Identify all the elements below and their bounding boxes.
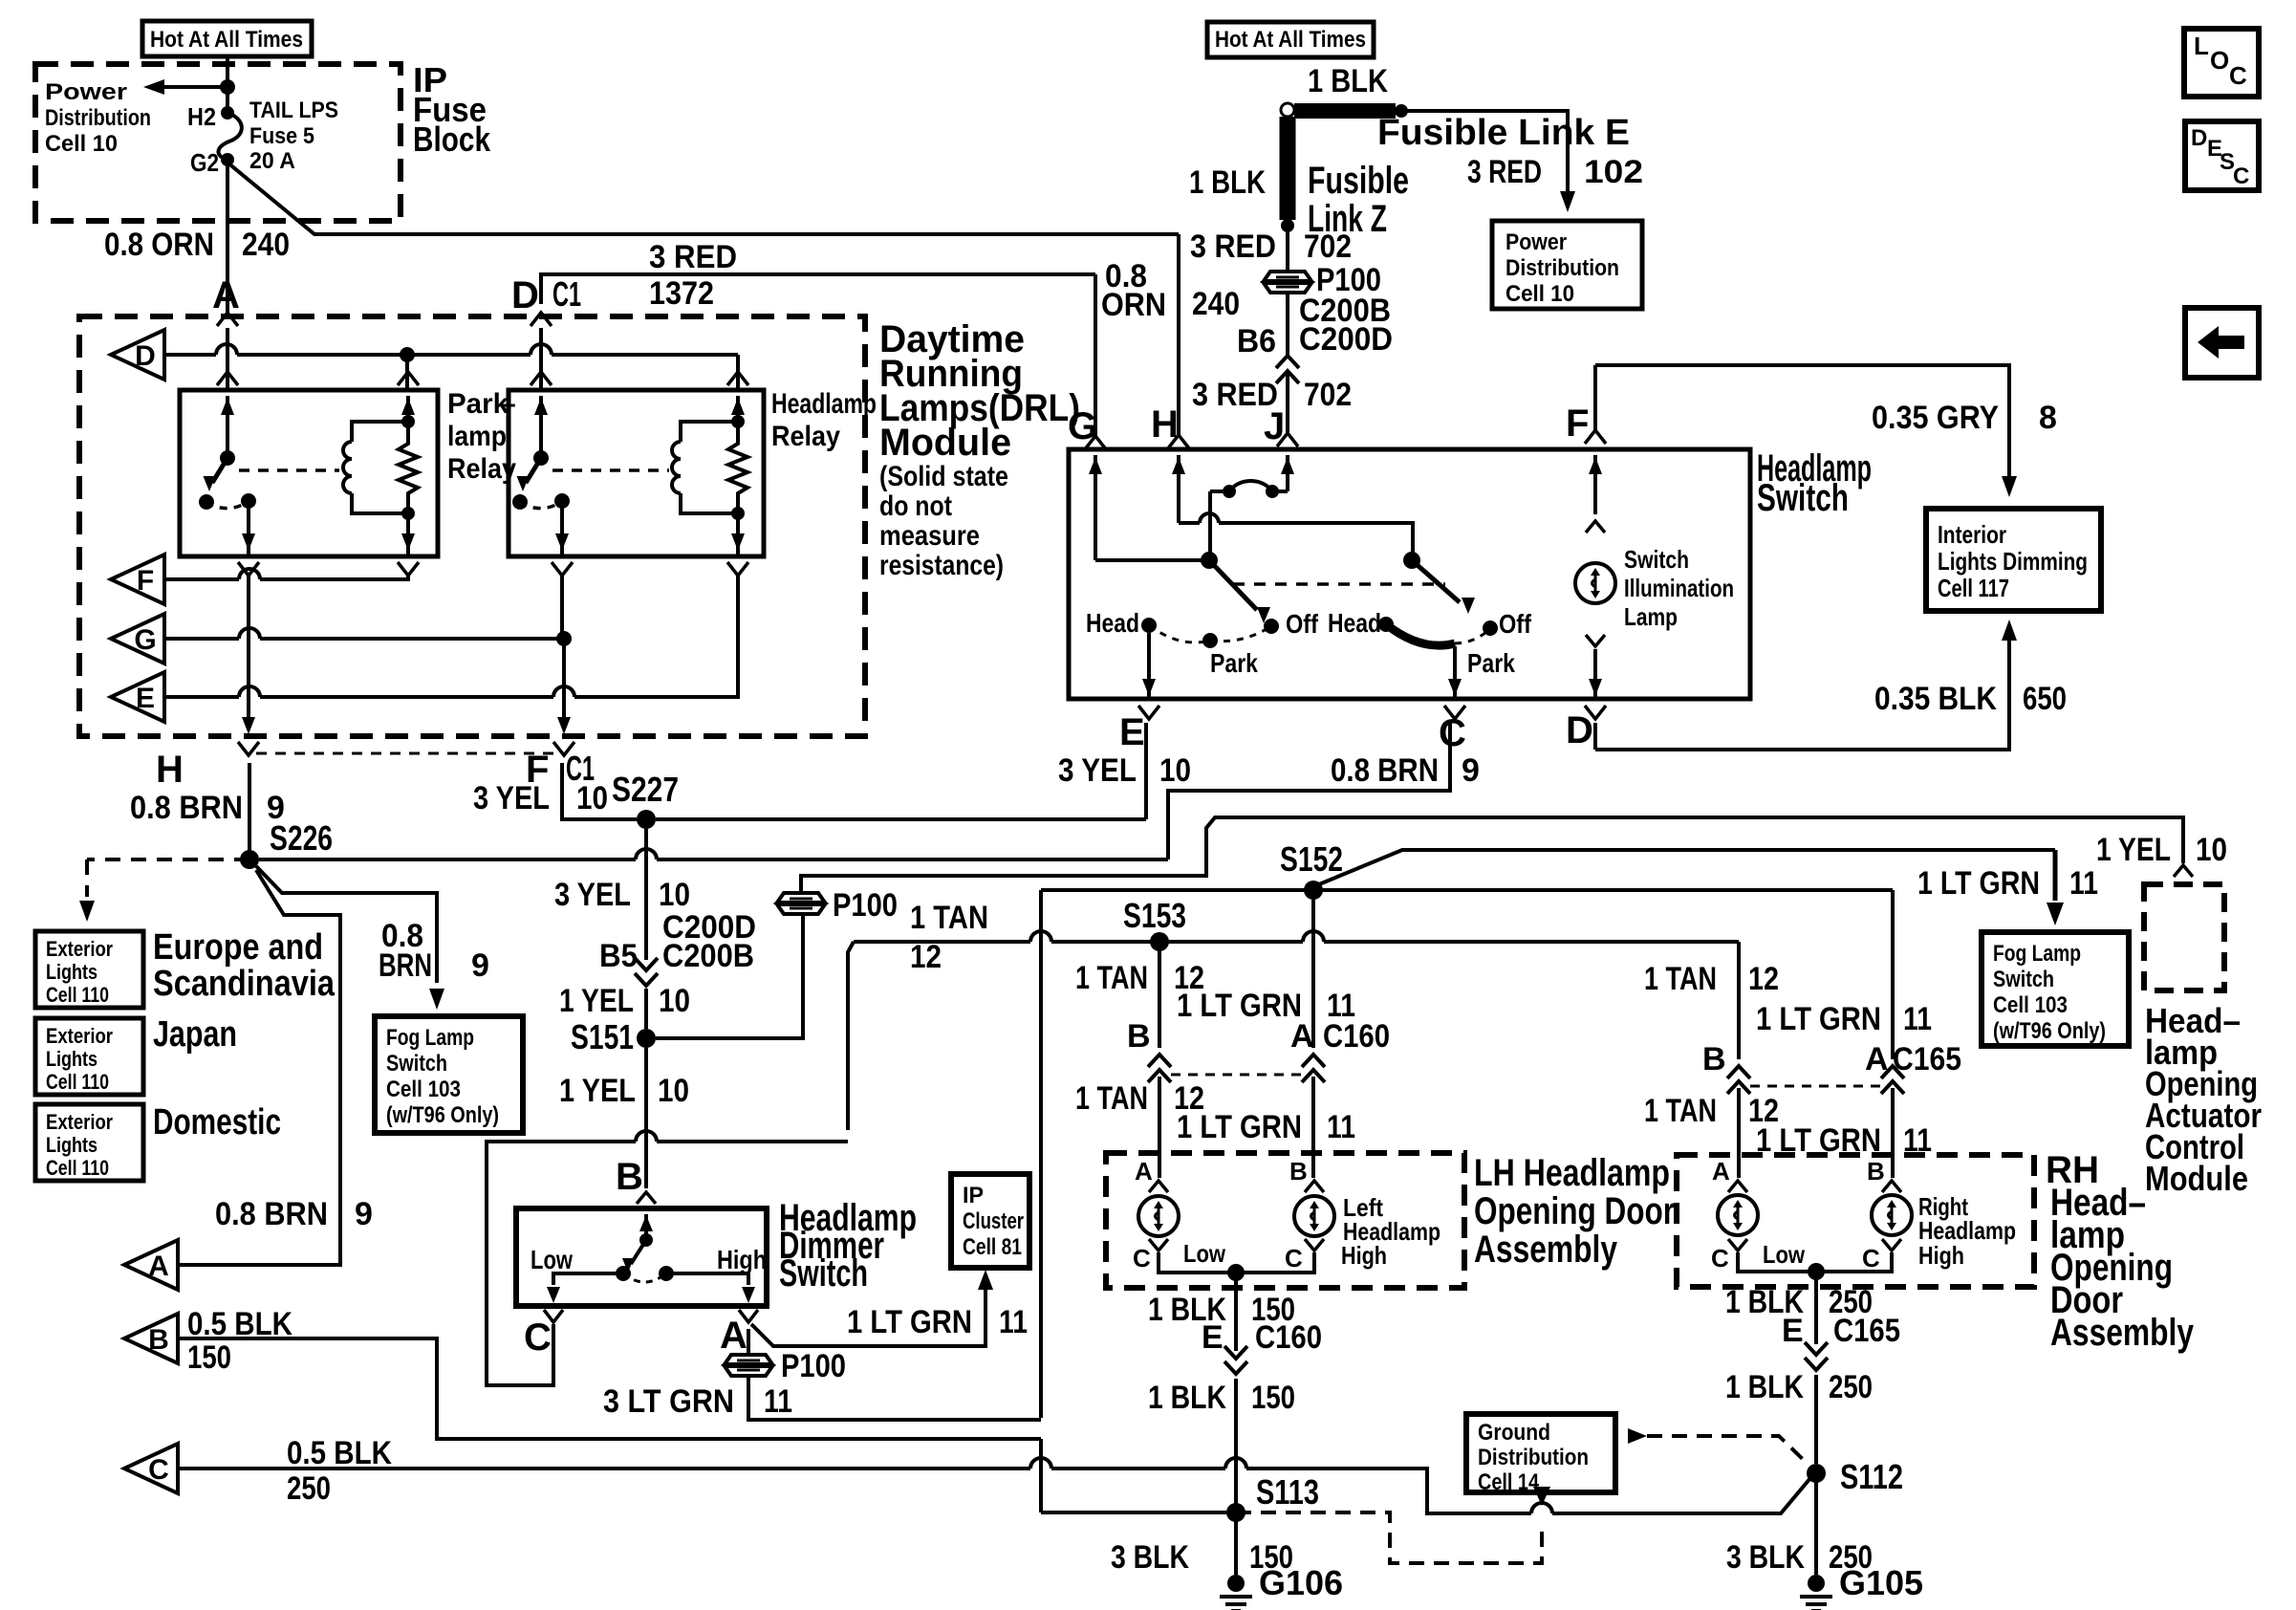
- wire: G riser down to headlamp switch pin G: [1094, 274, 1097, 437]
- svg-text:1 YEL: 1 YEL: [2096, 832, 2171, 868]
- label: 3 RED 702 (upper): [1190, 228, 1352, 265]
- wire: high beam riser from P100 bottom up to S152 line: [1039, 890, 1043, 1418]
- dimmer switch arm: [622, 1240, 646, 1273]
- svg-text:1 TAN: 1 TAN: [1644, 961, 1717, 997]
- svg-text:Relay: Relay: [447, 453, 516, 485]
- svg-text:12: 12: [910, 939, 942, 975]
- svg-text:3 RED: 3 RED: [1190, 228, 1276, 265]
- wire: right Park contact to switch pin C: [1448, 646, 1462, 699]
- wire: D pin to interior lights dimming (0.35 BLK 650): [1595, 620, 2017, 750]
- svg-text:C165: C165: [1833, 1313, 1900, 1349]
- headlamp opening actuator control module dashed box: [2144, 884, 2224, 990]
- svg-text:Low: Low: [531, 1245, 573, 1274]
- label: 1 BLK 150 (lower): [1148, 1380, 1295, 1416]
- svg-text:1 TAN: 1 TAN: [1644, 1093, 1717, 1129]
- label: 3 LT GRN 11: [603, 1383, 792, 1420]
- label C and Low (RH): [1711, 1240, 1806, 1273]
- svg-text:Module: Module: [2145, 1159, 2248, 1198]
- svg-text:lamp: lamp: [447, 421, 507, 452]
- label: Left Headlamp: [1343, 1193, 1440, 1246]
- svg-text:C: C: [2229, 61, 2247, 90]
- svg-text:150: 150: [1251, 1380, 1295, 1416]
- connector C160 dashed line: [1171, 1074, 1302, 1077]
- svg-text:Power: Power: [45, 79, 127, 105]
- wire: D/C1 pin down to headlamp relay switch: [539, 328, 543, 389]
- splice S112: [1807, 1464, 1826, 1483]
- svg-text:Illumination: Illumination: [1624, 574, 1734, 602]
- svg-text:1 LT GRN: 1 LT GRN: [1917, 865, 2040, 902]
- wire: F ref to park relay coil return: [164, 577, 239, 581]
- headlamp switch pin E chevron: [1138, 706, 1159, 719]
- headlamp switch: G input riser to park pivot: [1089, 455, 1202, 560]
- svg-text:Power: Power: [1505, 229, 1567, 255]
- label: 0.5 BLK 150: [187, 1306, 292, 1376]
- svg-text:S112: S112: [1840, 1457, 1903, 1496]
- park side switch arm: [1209, 560, 1270, 623]
- park lamp relay box: [180, 390, 438, 556]
- svg-text:F: F: [137, 565, 154, 597]
- wire: G ref to headlamp relay output node: [164, 637, 239, 641]
- wire: fuse G2 output down to DRL pin A (0.8 ORN 240): [226, 160, 229, 312]
- park relay coil pins: [401, 396, 415, 556]
- triangle ref B (bottom left): [124, 1314, 178, 1363]
- svg-text:resistance): resistance): [879, 550, 1004, 581]
- svg-text:Head: Head: [1328, 608, 1381, 638]
- wire: left Head contact to switch pin E: [1142, 633, 1156, 699]
- svg-text:1 LT GRN: 1 LT GRN: [1177, 1109, 1302, 1145]
- headlamp relay box: [509, 390, 764, 556]
- svg-text:0.8 BRN: 0.8 BRN: [215, 1196, 328, 1232]
- wire: RH lamp grounds join: [1738, 1252, 1892, 1272]
- svg-text:3 RED: 3 RED: [1467, 154, 1542, 190]
- junction dot G node: [556, 631, 572, 646]
- connector P100 (middle): [777, 893, 825, 914]
- legend box LOC: [2184, 29, 2259, 97]
- svg-text:1 YEL: 1 YEL: [559, 983, 634, 1019]
- wire: Hot At All Times down to fuse H2: [226, 56, 229, 113]
- svg-text:Europe and: Europe and: [153, 927, 323, 968]
- wire: dimmer C loop to 1 TAN riser: [487, 1131, 848, 1385]
- wire: S226 long feed right to headlamp switch C (0.8 BRN): [259, 849, 1168, 859]
- label: 1 LT GRN 11 (LH upper): [1177, 988, 1355, 1024]
- svg-text:Head: Head: [1086, 608, 1139, 638]
- svg-text:3 RED: 3 RED: [649, 239, 737, 275]
- svg-text:3 YEL: 3 YEL: [473, 780, 550, 816]
- label: 1 LT GRN 11 (RH upper): [1756, 1001, 1932, 1037]
- svg-text:Cell 117: Cell 117: [1938, 574, 2009, 602]
- connector C160 pin B: [1148, 1055, 1171, 1067]
- svg-text:250: 250: [1829, 1369, 1873, 1405]
- inline connector B6 C200B/C200D: [1276, 356, 1299, 368]
- label: 0.8 BRN 9 (switch C): [1331, 752, 1480, 789]
- label: 3 BLK 250: [1726, 1539, 1873, 1576]
- wire: DRL H output down to S226 (0.8 BRN 9): [248, 763, 251, 859]
- label: 3 YEL 10 (to S227): [473, 780, 608, 816]
- wire: fuse G2 diagonal to long feed, right to headlamp switch H riser: [227, 163, 1179, 234]
- svg-text:H2: H2: [187, 102, 216, 131]
- connector C165 dashed line: [1750, 1085, 1881, 1088]
- svg-text:E: E: [136, 683, 155, 714]
- triangle ref D (DRL internal): [111, 330, 164, 380]
- label: 1 LT GRN 11 (LH lower): [1177, 1109, 1355, 1145]
- svg-text:150: 150: [187, 1339, 231, 1376]
- dimmer pin C chevron: [544, 1310, 563, 1322]
- svg-text:C1: C1: [552, 274, 581, 314]
- fusible link Z thick bar (vertical): [1281, 117, 1294, 232]
- svg-text:measure: measure: [879, 520, 980, 552]
- label: Power Distribution Cell 10 (IP fuse block): [45, 79, 151, 157]
- svg-text:D: D: [1566, 709, 1593, 751]
- label E C165: [1782, 1313, 1900, 1349]
- svg-text:3 YEL: 3 YEL: [554, 877, 631, 913]
- wire: C160 B down to LH headlamp low (1 TAN 12): [1158, 1077, 1161, 1178]
- svg-text:A: A: [1290, 1018, 1314, 1055]
- svg-text:B6: B6: [1237, 323, 1276, 359]
- box: Fog Lamp Switch Cell 103 left: [375, 1016, 523, 1133]
- svg-text:High: High: [1341, 1241, 1387, 1270]
- wire: D ref to relay coils feed: [164, 353, 216, 357]
- dimmer pin A chevron: [739, 1310, 758, 1322]
- svg-text:B: B: [616, 1156, 643, 1198]
- label: Right Headlamp: [1918, 1192, 2016, 1245]
- label: 1 BLK 250 (upper): [1725, 1284, 1873, 1320]
- svg-text:E: E: [1119, 711, 1145, 753]
- label: 0.8 BRN 9 (A triangle): [215, 1196, 373, 1232]
- box: Exterior Lights Cell 110 (Domestic): [35, 1104, 143, 1181]
- connector P100 (dimmer): [725, 1355, 772, 1376]
- connector C165 pin E: [1805, 1342, 1828, 1355]
- svg-text:E: E: [1202, 1319, 1224, 1356]
- label: 1 LT GRN 11 (RH lower): [1756, 1122, 1932, 1159]
- legend box back-arrow: [2185, 308, 2259, 378]
- svg-text:240: 240: [1192, 286, 1240, 322]
- label: Head-lamp Opening Actuator Control Module: [2145, 1001, 2262, 1198]
- svg-text:Fog Lamp: Fog Lamp: [1993, 941, 2081, 967]
- wire: S113 to ground G106 (3 BLK 150): [1234, 1512, 1238, 1575]
- svg-text:C160: C160: [1323, 1018, 1390, 1055]
- svg-text:G2: G2: [190, 148, 219, 177]
- triangle ref F (DRL internal): [111, 555, 164, 604]
- wire: S152 diagonal to fog lamp switch right feed: [1319, 850, 2055, 884]
- svg-text:Cell 103: Cell 103: [1993, 992, 2068, 1018]
- park side pivot dot: [1201, 552, 1218, 569]
- svg-text:BRN: BRN: [379, 947, 432, 984]
- wire: C165 B down to RH headlamp low (1 TAN 12): [1737, 1088, 1741, 1178]
- wire: A pin down to park relay switch: [226, 328, 229, 389]
- headlamp dimmer switch box: [516, 1208, 767, 1306]
- svg-text:(w/T96 Only): (w/T96 Only): [1993, 1018, 2106, 1044]
- wire: F pin up to interior lights dimming (0.35 GRY 8): [1585, 365, 2017, 497]
- svg-text:TAIL LPS: TAIL LPS: [249, 98, 338, 123]
- svg-text:S226: S226: [270, 818, 333, 858]
- svg-text:C: C: [1439, 712, 1466, 754]
- svg-text:Exterior: Exterior: [46, 1024, 113, 1048]
- ground G106: [1220, 1563, 1343, 1610]
- label: 1 LT GRN 11 (IP cluster): [847, 1304, 1028, 1340]
- svg-text:Lights: Lights: [46, 1047, 97, 1071]
- svg-text:Low: Low: [1183, 1239, 1226, 1268]
- head side switch arm: [1412, 560, 1475, 614]
- svg-text:0.8 BRN: 0.8 BRN: [130, 790, 243, 826]
- label C and Low (LH): [1133, 1239, 1226, 1273]
- svg-text:Distribution: Distribution: [1478, 1445, 1589, 1470]
- svg-text:Switch: Switch: [386, 1051, 447, 1077]
- label: 0.35 BLK 650: [1874, 681, 2067, 717]
- connector chevron J: [1277, 433, 1298, 446]
- wire: C ref to S112 (0.5 BLK 250): [178, 1458, 1810, 1513]
- triangle ref C (bottom left): [124, 1444, 178, 1493]
- LH high beam lamp: [1294, 1196, 1334, 1236]
- svg-text:9: 9: [355, 1196, 373, 1232]
- svg-text:11: 11: [1903, 1001, 1932, 1037]
- svg-text:3 BLK: 3 BLK: [1726, 1539, 1805, 1576]
- ref arrow down from ground distribution: [1533, 1487, 1550, 1506]
- wire: C200D B6 down to headlamp switch pin J (3 RED 702): [1286, 374, 1289, 432]
- label: 1 TAN 12 (RH upper): [1644, 961, 1779, 997]
- power feed box: Hot At All Times (left): [142, 21, 312, 56]
- RH low beam lamp: [1718, 1195, 1758, 1235]
- headlamp relay actuate dashed link: [552, 468, 669, 472]
- svg-text:Japan: Japan: [153, 1014, 237, 1055]
- RH headlamp opening door assembly dashed box: [1677, 1155, 2034, 1287]
- junction dot LH ground: [1227, 1264, 1245, 1281]
- label: 1 BLK 250 (lower): [1725, 1369, 1873, 1405]
- wire: coil feed down into park lamp relay: [405, 355, 409, 389]
- label: 1 BLK 150 (upper): [1148, 1292, 1295, 1328]
- svg-text:Scandinavia: Scandinavia: [153, 964, 336, 1004]
- svg-text:S151: S151: [571, 1017, 634, 1056]
- label: 0.5 BLK 250: [287, 1435, 392, 1507]
- svg-text:(Solid state: (Solid state: [879, 461, 1008, 492]
- svg-text:10: 10: [659, 877, 690, 913]
- label: 3 RED 102: [1467, 154, 1643, 190]
- wire: Low contact to pin C: [547, 1273, 623, 1303]
- label: 3 RED 702 (lower): [1192, 377, 1352, 413]
- wire: P100 down right and up to S152 trunk (high beam): [748, 1377, 1041, 1420]
- svg-text:Cell 14: Cell 14: [1478, 1469, 1540, 1495]
- head side contacts with closed thick contact: [1378, 617, 1498, 645]
- svg-text:D: D: [135, 340, 156, 372]
- park relay pin chevrons: [217, 372, 238, 385]
- svg-text:1 BLK: 1 BLK: [1308, 63, 1388, 99]
- svg-text:1 TAN: 1 TAN: [910, 900, 988, 936]
- svg-text:Fog Lamp: Fog Lamp: [386, 1025, 474, 1051]
- wire: LH lamp grounds join: [1159, 1252, 1314, 1273]
- triangle ref E (DRL internal): [111, 672, 164, 722]
- wire: DRL pin D/C1 up and right to headlamp switch G riser (3 RED 1372): [541, 274, 1095, 304]
- label: 1 TAN 12 (LH upper): [1075, 960, 1204, 996]
- box: Fog Lamp Switch Cell 103 right: [1982, 932, 2129, 1046]
- svg-text:Module: Module: [879, 422, 1011, 464]
- connector chevron G: [1085, 436, 1106, 449]
- label: 1 YEL 10 (actuator): [2096, 832, 2227, 868]
- svg-text:C: C: [1711, 1244, 1729, 1273]
- svg-text:Switch: Switch: [1757, 477, 1849, 519]
- svg-text:S113: S113: [1256, 1472, 1319, 1512]
- wire: S226 to A triangle riser (0.8 BRN 9): [178, 870, 340, 1265]
- wire: High contact to pin A: [666, 1273, 755, 1303]
- park relay switch: [199, 396, 256, 556]
- svg-text:Cell 10: Cell 10: [1505, 281, 1574, 307]
- svg-text:C: C: [1133, 1244, 1151, 1273]
- svg-text:10: 10: [576, 780, 608, 816]
- svg-text:L: L: [2194, 32, 2209, 60]
- fusible link E thick bar with crimp circle: [1281, 103, 1408, 118]
- label: 0.8 ORN 240 (right): [1101, 258, 1240, 323]
- wire: dimmer A down through P100 (3 LT GRN 11): [747, 1329, 750, 1355]
- svg-text:B: B: [1127, 1018, 1151, 1055]
- wire: 1 TAN right trunk down to C165 pin B: [1737, 942, 1741, 1059]
- label: RH Head-lamp Opening Door Assembly: [2046, 1149, 2195, 1354]
- RH high C chevron: [1882, 1239, 1901, 1251]
- DRL pin F/C1 chevron below module: [553, 742, 574, 755]
- wire: P100 to C200 connector B6: [1286, 294, 1289, 355]
- svg-text:LH Headlamp: LH Headlamp: [1474, 1152, 1670, 1194]
- label: 0.35 GRY 8: [1872, 400, 2057, 436]
- svg-text:Headlamp: Headlamp: [771, 388, 877, 420]
- svg-text:C: C: [1862, 1244, 1880, 1273]
- label: 0.8 BRN 9 (H to S226): [130, 790, 285, 826]
- label C and High (RH): [1862, 1241, 1964, 1273]
- park side contacts Head Off Park: [1141, 618, 1279, 648]
- svg-text:0.8 BRN: 0.8 BRN: [1331, 752, 1439, 789]
- svg-text:A: A: [212, 274, 240, 316]
- ground G105: [1800, 1563, 1923, 1610]
- label: 3 YEL 10 (C200): [554, 877, 690, 913]
- box: Interior Lights Dimming Cell 117: [1926, 509, 2101, 611]
- svg-text:11: 11: [999, 1304, 1028, 1340]
- svg-text:10: 10: [658, 1073, 689, 1109]
- connector C160 pin A: [1302, 1055, 1325, 1067]
- splice S153: [1150, 932, 1169, 951]
- svg-text:1 TAN: 1 TAN: [1075, 960, 1148, 996]
- connector P100 (top): [1264, 272, 1311, 293]
- connector chevron into actuator module: [2174, 865, 2193, 877]
- label: 3 RED 1372: [649, 239, 737, 312]
- svg-text:G105: G105: [1839, 1563, 1923, 1602]
- label: IP Fuse Block: [413, 60, 491, 159]
- label: Headlamp Switch: [1757, 447, 1872, 519]
- RH high beam lamp: [1872, 1195, 1912, 1235]
- DRL pin H chevron below module: [238, 742, 259, 755]
- svg-text:3 BLK: 3 BLK: [1111, 1539, 1189, 1576]
- wire: park relay output down to DRL pin H: [247, 576, 250, 717]
- svg-text:3 LT GRN: 3 LT GRN: [603, 1383, 734, 1420]
- svg-text:(w/T96 Only): (w/T96 Only): [386, 1102, 499, 1128]
- svg-text:B: B: [1702, 1041, 1726, 1077]
- svg-text:1372: 1372: [649, 275, 714, 312]
- label F C1 (DRL output pin): [526, 749, 595, 791]
- label: C200B C200D B6: [1237, 293, 1393, 359]
- box: Exterior Lights Cell 110 (Europe): [35, 931, 143, 1008]
- svg-text:S227: S227: [612, 770, 679, 809]
- svg-text:650: 650: [2023, 681, 2067, 717]
- IP Fuse Block dashed box: [35, 64, 401, 221]
- label: 3 BLK 150: [1111, 1539, 1293, 1576]
- svg-text:Lamp: Lamp: [1624, 602, 1678, 631]
- svg-text:0.35 GRY: 0.35 GRY: [1872, 400, 1999, 436]
- svg-text:Switch: Switch: [1624, 545, 1689, 574]
- label: 1 TAN 12 (LH lower): [1075, 1080, 1204, 1117]
- svg-text:1 LT GRN: 1 LT GRN: [1756, 1001, 1881, 1037]
- svg-text:P100: P100: [833, 887, 898, 924]
- svg-text:1 BLK: 1 BLK: [1189, 164, 1266, 201]
- svg-text:Lights: Lights: [46, 960, 97, 984]
- LH headlamp opening door assembly dashed box: [1106, 1153, 1464, 1288]
- svg-text:Lights Dimming: Lights Dimming: [1938, 547, 2088, 576]
- svg-text:Low: Low: [1763, 1240, 1806, 1269]
- wire: C160 A down to LH headlamp high (1 LT GRN 11): [1311, 1077, 1315, 1178]
- svg-text:11: 11: [2069, 865, 2098, 902]
- headlamp switch pin D chevron: [1585, 706, 1606, 719]
- box: Exterior Lights Cell 110 (Japan): [35, 1018, 143, 1095]
- wire: S226 to fog lamp switch left (0.8 BRN 9): [256, 866, 444, 1010]
- wire: B ref to S113 (0.5 BLK 150): [178, 1338, 1041, 1439]
- svg-text:10: 10: [1159, 752, 1191, 789]
- dimmer switch feed arrow and pivot: [639, 1214, 653, 1247]
- arrow: feed to power distribution (left): [161, 85, 227, 89]
- svg-text:Off: Off: [1499, 609, 1532, 639]
- wire: S151 down to dimmer pin B (1 YEL 10): [644, 1048, 648, 1188]
- svg-text:Fusible Link E: Fusible Link E: [1377, 113, 1630, 153]
- svg-text:G: G: [134, 624, 156, 656]
- label A C160: [1290, 1018, 1390, 1055]
- power feed box: Hot At All Times (middle): [1207, 22, 1374, 57]
- wire: S151 right and up to P100 middle: [656, 915, 803, 1038]
- label: 0.8 BRN 9 (fog left): [379, 918, 489, 984]
- LH high C chevron: [1305, 1239, 1324, 1251]
- wire: S227 right to headlamp switch E riser: [656, 817, 1146, 821]
- DRL module dashed box: [79, 316, 865, 736]
- svg-text:B: B: [1867, 1157, 1885, 1186]
- wire: RH ground down to C165 E (1 BLK 250): [1814, 1272, 1818, 1344]
- headlamp relay coil pins: [731, 396, 745, 556]
- svg-text:Cell 110: Cell 110: [46, 1156, 109, 1180]
- headlamp switch pin C chevron: [1444, 706, 1465, 719]
- triangle ref A (bottom left): [124, 1240, 178, 1290]
- label E C160: [1202, 1319, 1322, 1356]
- svg-text:12: 12: [1748, 961, 1779, 997]
- svg-text:E: E: [1782, 1313, 1804, 1349]
- wire: illumination lamp to switch pin D: [1586, 635, 1605, 699]
- svg-text:C165: C165: [1893, 1041, 1961, 1077]
- svg-text:High: High: [1918, 1241, 1964, 1270]
- svg-text:S153: S153: [1123, 896, 1186, 935]
- label: 1 TAN 12 (main): [910, 900, 988, 975]
- wire: C165 A down to RH headlamp high (1 LT GRN 11): [1891, 1088, 1895, 1178]
- label: Headlamp Dimmer Switch: [779, 1197, 917, 1295]
- svg-text:Hot At All Times: Hot At All Times: [150, 27, 303, 53]
- wire: S152 trunk 1 LT GRN: [1041, 888, 1893, 892]
- svg-text:C: C: [524, 1316, 552, 1359]
- head side pivot dot: [1403, 552, 1420, 569]
- svg-text:Interior: Interior: [1938, 520, 2006, 549]
- switch illumination lamp column: [1586, 455, 1605, 533]
- park relay resistor: [399, 422, 418, 513]
- svg-text:9: 9: [1462, 752, 1480, 789]
- svg-text:Cell 103: Cell 103: [386, 1077, 461, 1102]
- svg-text:Relay: Relay: [771, 421, 840, 452]
- wire: coil feed down into headlamp relay: [736, 355, 740, 389]
- switch illumination lamp: [1575, 563, 1615, 603]
- headlamp switch box: [1069, 449, 1750, 699]
- dashed ground distribution link to S113 wire: [1236, 1503, 1542, 1563]
- svg-text:Hot At All Times: Hot At All Times: [1215, 27, 1366, 53]
- svg-text:1 LT GRN: 1 LT GRN: [1177, 988, 1302, 1024]
- svg-text:P100: P100: [781, 1348, 846, 1384]
- svg-text:20 A: 20 A: [249, 148, 295, 174]
- svg-text:8: 8: [2039, 400, 2057, 436]
